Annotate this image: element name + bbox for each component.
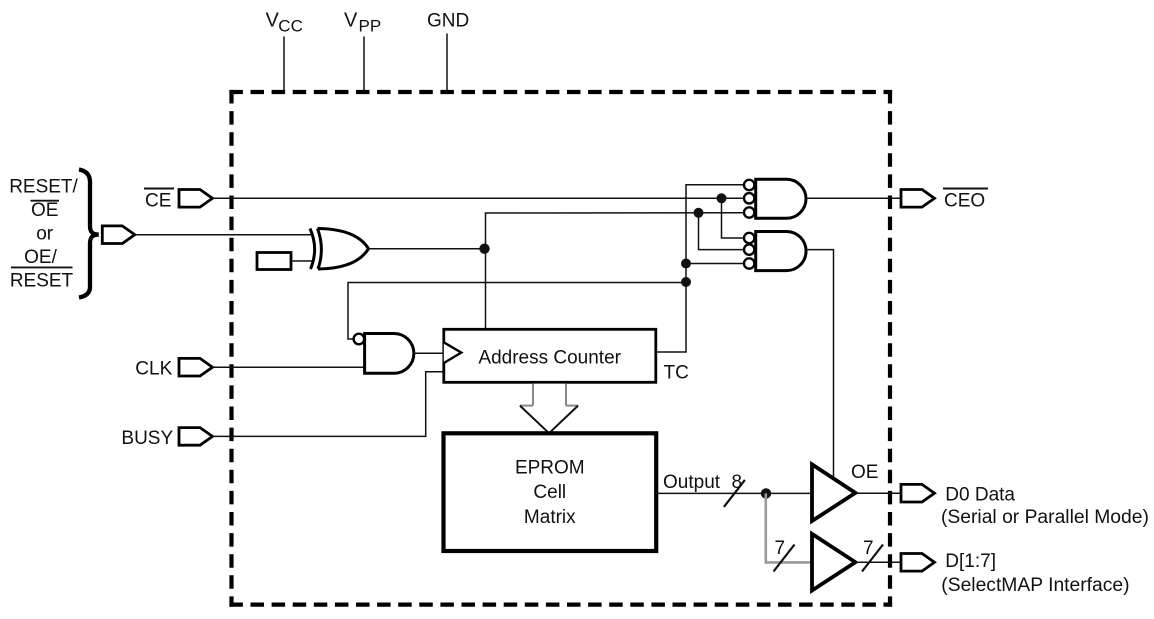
svg-text:OE: OE bbox=[851, 462, 878, 483]
EPROM Cell Matrix block bbox=[444, 433, 657, 551]
bus slash 7 input bbox=[774, 545, 795, 572]
input pin (RESET/OE) bbox=[102, 226, 135, 244]
Address Counter block bbox=[444, 329, 656, 382]
wire BUSY to Address Counter bbox=[213, 372, 444, 437]
svg-text:V: V bbox=[344, 9, 358, 31]
hollow arrow Address Counter to EPROM bbox=[520, 384, 578, 434]
wire AND1 output to CEO bbox=[806, 197, 901, 199]
svg-text:(SelectMAP Interface): (SelectMAP Interface) bbox=[941, 575, 1129, 596]
svg-text:OE/: OE/ bbox=[24, 247, 57, 268]
XOR gate U1 bbox=[310, 229, 369, 270]
wire to lower buffer (grey) bbox=[766, 493, 812, 562]
wire XOR output bbox=[369, 248, 485, 250]
svg-text:CEO: CEO bbox=[944, 190, 985, 211]
svg-text:TC: TC bbox=[664, 363, 689, 384]
wire buffer2 output bbox=[855, 561, 901, 563]
svg-text:CLK: CLK bbox=[135, 358, 172, 379]
wire CE branch to AND2 input 1 bbox=[722, 198, 744, 238]
NAND input bubble bbox=[354, 334, 365, 345]
output pin D0 bbox=[901, 484, 935, 502]
wire TC feedback net bbox=[656, 185, 744, 352]
bus slash 8 bbox=[724, 480, 745, 507]
overline over RESET bbox=[11, 266, 73, 268]
wire AND2 output to OE buffer bbox=[806, 250, 834, 479]
wire to AND1 input 3 bbox=[485, 212, 744, 214]
svg-text:Cell: Cell bbox=[533, 482, 566, 503]
svg-text:CC: CC bbox=[278, 17, 303, 36]
wire EPROM output bus bbox=[656, 492, 812, 494]
power pin VCC label bbox=[266, 9, 303, 35]
svg-text:RESET: RESET bbox=[10, 270, 74, 291]
svg-text:RESET/: RESET/ bbox=[9, 177, 78, 198]
svg-text:PP: PP bbox=[359, 17, 382, 36]
wire to AND2 input 3 bbox=[686, 263, 744, 265]
svg-text:D[1:7]: D[1:7] bbox=[945, 551, 996, 572]
buffer U5 (OE) bbox=[812, 464, 855, 521]
node junction on y213 bbox=[694, 208, 704, 218]
svg-text:EPROM: EPROM bbox=[515, 457, 585, 478]
svg-text:CE: CE bbox=[145, 190, 171, 211]
overline over OE bbox=[31, 200, 60, 202]
svg-text:7: 7 bbox=[775, 538, 786, 559]
svg-text:Output: Output bbox=[663, 472, 721, 493]
NAND gate U2 bbox=[365, 334, 414, 374]
wire CE to AND gates bbox=[213, 197, 744, 199]
wire junction vertical bbox=[485, 213, 487, 329]
wire to AND2 input 2 bbox=[699, 213, 744, 250]
input pin BUSY bbox=[179, 428, 213, 446]
dashed device boundary box bbox=[229, 90, 892, 607]
node TC junction lower bbox=[681, 277, 691, 287]
input pin CLK bbox=[179, 358, 213, 376]
AND gate U3 (CEO) bbox=[756, 179, 806, 218]
bus slash 7 output bbox=[862, 545, 883, 572]
curly brace bbox=[79, 170, 99, 298]
wire polarity box to XOR bbox=[291, 260, 312, 262]
node junction AND2 input 3 bbox=[681, 259, 691, 269]
AND2 input bubbles bbox=[744, 233, 754, 243]
output pin CEO bbox=[901, 190, 935, 208]
input pin CE bbox=[179, 190, 213, 208]
wire NAND output bbox=[414, 352, 444, 354]
AND1 input bubbles bbox=[744, 180, 754, 190]
svg-text:7: 7 bbox=[863, 538, 874, 559]
wire TC to NAND input bbox=[348, 283, 686, 340]
wire GND bbox=[446, 34, 448, 91]
svg-text:Matrix: Matrix bbox=[524, 507, 576, 528]
wire VCC bbox=[283, 37, 285, 91]
svg-text:OE: OE bbox=[31, 200, 58, 221]
wire from RESET/OE pin to XOR input bbox=[135, 234, 311, 236]
svg-text:(Serial or Parallel Mode): (Serial or Parallel Mode) bbox=[941, 507, 1149, 528]
svg-text:Address Counter: Address Counter bbox=[478, 348, 621, 369]
power pin VPP label bbox=[344, 9, 381, 35]
wire buffer1 output bbox=[855, 492, 901, 494]
node junction on CE line bbox=[717, 193, 727, 203]
node label RESET/OE or OE/RESET bbox=[9, 177, 78, 292]
clock triangle bbox=[444, 342, 462, 363]
svg-text:D0 Data: D0 Data bbox=[945, 485, 1015, 506]
svg-text:or: or bbox=[36, 224, 54, 245]
node output junction bbox=[761, 488, 771, 498]
svg-text:BUSY: BUSY bbox=[121, 428, 173, 449]
node XOR output junction bbox=[479, 244, 489, 254]
polarity option box bbox=[257, 253, 291, 270]
wire VPP bbox=[363, 37, 365, 91]
buffer U6 bbox=[812, 534, 855, 591]
AND gate U4 (OE control) bbox=[756, 232, 806, 271]
svg-text:GND: GND bbox=[427, 11, 469, 32]
wire CLK to NAND bbox=[213, 366, 365, 368]
output pin D[1:7] bbox=[901, 554, 935, 572]
